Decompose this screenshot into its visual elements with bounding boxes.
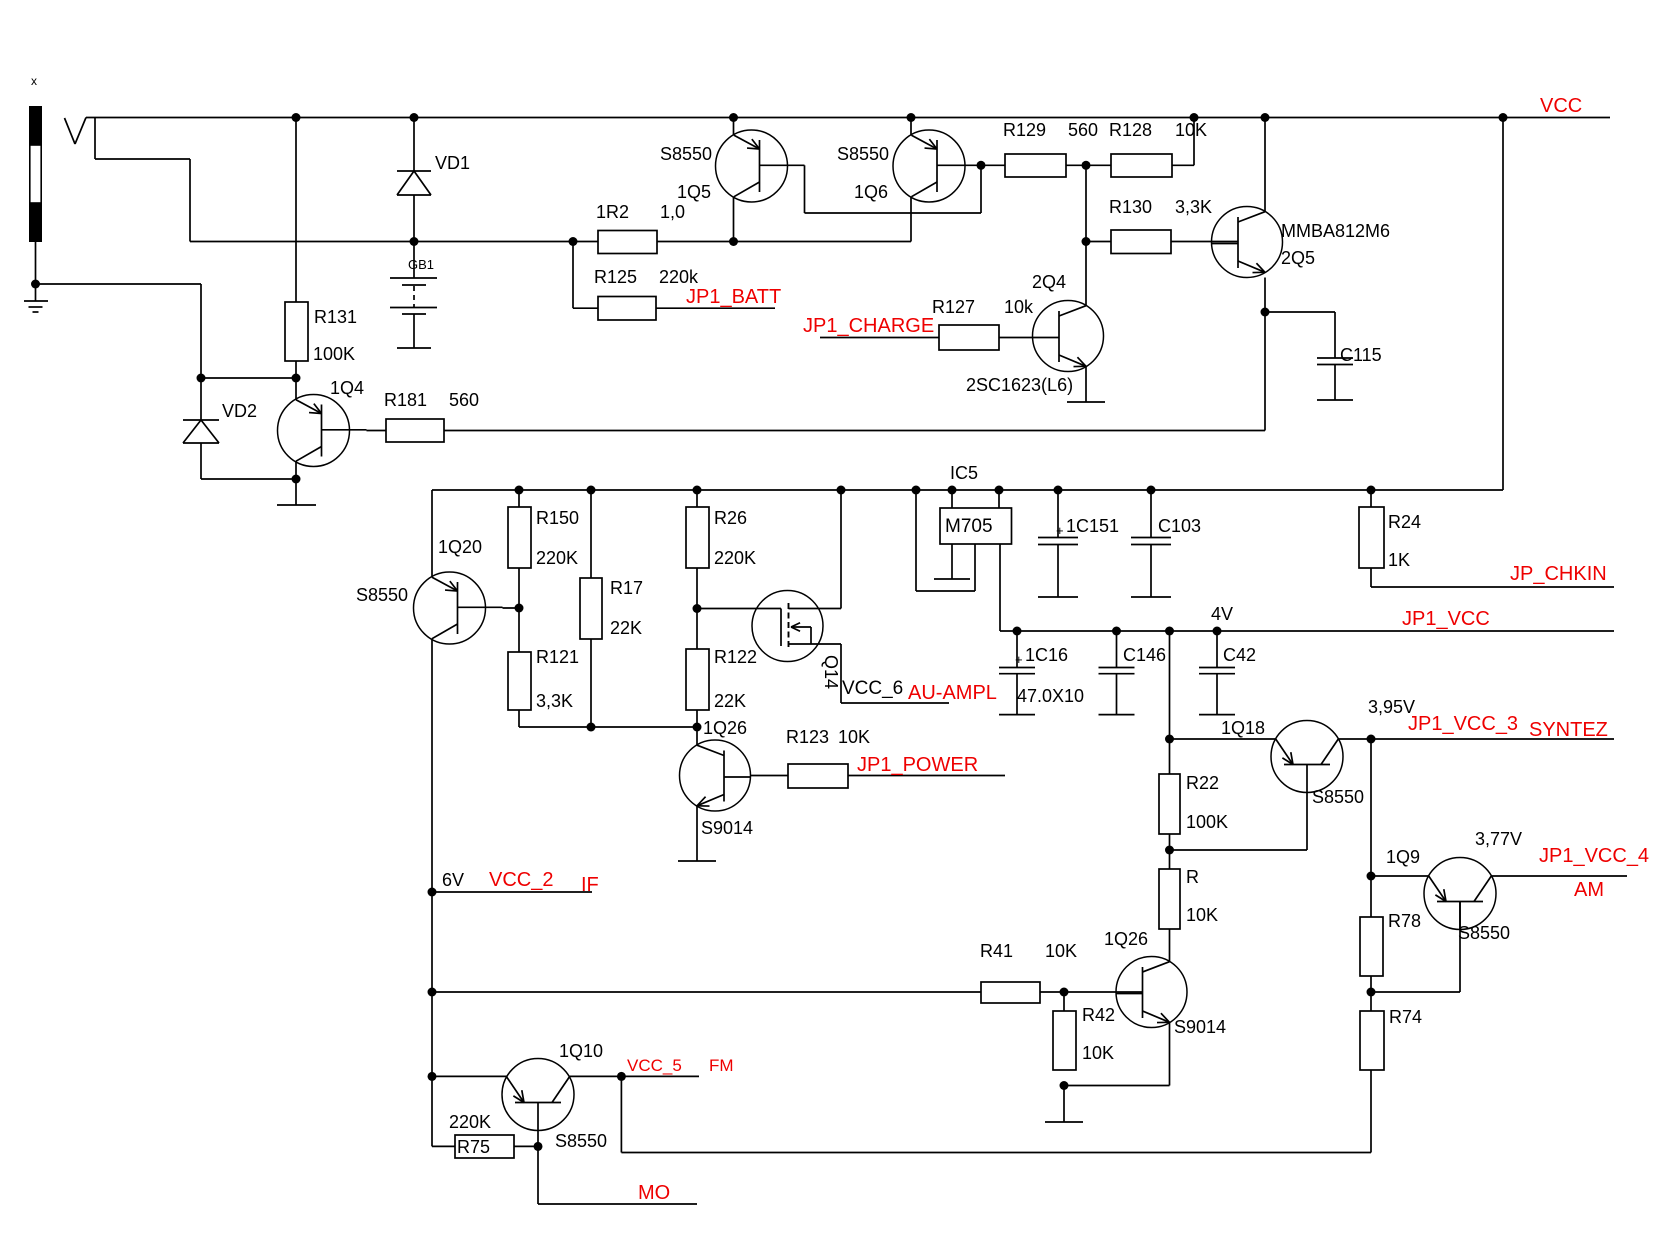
svg-text:R129: R129 [1003, 120, 1046, 140]
svg-text:S8550: S8550 [1458, 923, 1510, 943]
svg-text:1Q18: 1Q18 [1221, 718, 1265, 738]
svg-text:S8550: S8550 [356, 585, 408, 605]
svg-text:+: + [1015, 652, 1023, 667]
svg-text:1Q9: 1Q9 [1386, 847, 1420, 867]
svg-text:S8550: S8550 [1312, 787, 1364, 807]
svg-text:R125: R125 [594, 267, 637, 287]
svg-text:R75: R75 [457, 1137, 490, 1157]
svg-text:R: R [1186, 867, 1199, 887]
svg-text:R121: R121 [536, 647, 579, 667]
svg-text:100K: 100K [313, 344, 355, 364]
svg-text:10K: 10K [1045, 941, 1077, 961]
svg-text:FM: FM [709, 1056, 734, 1075]
svg-text:R17: R17 [610, 578, 643, 598]
svg-text:IC5: IC5 [950, 463, 978, 483]
svg-text:10k: 10k [1004, 297, 1034, 317]
svg-text:22K: 22K [610, 618, 642, 638]
svg-text:VCC_2: VCC_2 [489, 869, 553, 891]
svg-text:GB1: GB1 [408, 257, 434, 272]
svg-text:R22: R22 [1186, 773, 1219, 793]
svg-text:S9014: S9014 [701, 818, 753, 838]
svg-text:1Q10: 1Q10 [559, 1041, 603, 1061]
svg-text:1Q26: 1Q26 [703, 718, 747, 738]
svg-text:220K: 220K [536, 548, 578, 568]
svg-text:2Q4: 2Q4 [1032, 272, 1066, 292]
svg-text:47.0X10: 47.0X10 [1017, 686, 1084, 706]
svg-text:560: 560 [1068, 120, 1098, 140]
svg-text:10K: 10K [838, 727, 870, 747]
svg-text:3,3K: 3,3K [536, 691, 573, 711]
svg-text:1Q5: 1Q5 [677, 182, 711, 202]
svg-text:R130: R130 [1109, 197, 1152, 217]
svg-text:10K: 10K [1082, 1043, 1114, 1063]
svg-text:10K: 10K [1186, 905, 1218, 925]
svg-text:S9014: S9014 [1174, 1017, 1226, 1037]
svg-text:R181: R181 [384, 390, 427, 410]
svg-text:S8550: S8550 [555, 1131, 607, 1151]
svg-text:R128: R128 [1109, 120, 1152, 140]
svg-text:VCC_5: VCC_5 [627, 1056, 682, 1075]
svg-text:2Q5: 2Q5 [1281, 248, 1315, 268]
svg-text:R41: R41 [980, 941, 1013, 961]
svg-text:JP1_VCC_4: JP1_VCC_4 [1539, 845, 1649, 867]
svg-text:22K: 22K [714, 691, 746, 711]
svg-text:VD2: VD2 [222, 401, 257, 421]
svg-text:S8550: S8550 [660, 144, 712, 164]
svg-text:2SC1623(L6): 2SC1623(L6) [966, 375, 1073, 395]
svg-text:VCC: VCC [1540, 95, 1582, 117]
svg-text:R131: R131 [314, 307, 357, 327]
svg-text:IF: IF [581, 874, 599, 896]
svg-text:C115: C115 [1340, 345, 1382, 365]
svg-text:220K: 220K [449, 1112, 491, 1132]
svg-text:VCC_6: VCC_6 [842, 678, 903, 699]
svg-text:1K: 1K [1388, 550, 1410, 570]
svg-text:1Q26: 1Q26 [1104, 929, 1148, 949]
svg-text:R78: R78 [1388, 911, 1421, 931]
svg-text:Q14: Q14 [821, 655, 841, 689]
svg-text:1Q6: 1Q6 [854, 182, 888, 202]
svg-text:JP1_BATT: JP1_BATT [686, 286, 781, 308]
svg-text:100K: 100K [1186, 812, 1228, 832]
svg-text:R74: R74 [1389, 1007, 1422, 1027]
svg-text:JP_CHKIN: JP_CHKIN [1510, 563, 1607, 585]
svg-text:AM: AM [1574, 879, 1604, 901]
svg-text:1Q4: 1Q4 [330, 378, 364, 398]
svg-text:10K: 10K [1175, 120, 1207, 140]
svg-text:SYNTEZ: SYNTEZ [1529, 719, 1608, 741]
svg-text:1C151: 1C151 [1066, 516, 1119, 536]
svg-text:VD1: VD1 [435, 153, 470, 173]
svg-text:3,3K: 3,3K [1175, 197, 1212, 217]
svg-text:+: + [1056, 523, 1064, 538]
svg-text:220k: 220k [659, 267, 699, 287]
svg-text:1Q20: 1Q20 [438, 537, 482, 557]
svg-text:R24: R24 [1388, 512, 1421, 532]
svg-text:R150: R150 [536, 508, 579, 528]
svg-text:3,77V: 3,77V [1475, 829, 1522, 849]
svg-text:M705: M705 [945, 516, 993, 537]
svg-text:JP1_POWER: JP1_POWER [857, 754, 978, 776]
svg-text:1,0: 1,0 [660, 202, 685, 222]
svg-text:C103: C103 [1158, 516, 1201, 536]
svg-text:1R2: 1R2 [596, 202, 629, 222]
svg-text:JP1_CHARGE: JP1_CHARGE [803, 315, 934, 337]
svg-text:MO: MO [638, 1182, 670, 1204]
svg-text:R26: R26 [714, 508, 747, 528]
svg-text:AU-AMPL: AU-AMPL [908, 682, 997, 704]
svg-text:560: 560 [449, 390, 479, 410]
svg-text:C146: C146 [1123, 645, 1166, 665]
svg-text:R122: R122 [714, 647, 757, 667]
svg-text:6V: 6V [442, 870, 464, 890]
svg-text:JP1_VCC_3: JP1_VCC_3 [1408, 713, 1518, 735]
svg-text:S8550: S8550 [837, 144, 889, 164]
svg-text:JP1_VCC: JP1_VCC [1402, 608, 1490, 630]
svg-text:R123: R123 [786, 727, 829, 747]
svg-text:x: x [31, 74, 37, 88]
svg-text:R127: R127 [932, 297, 975, 317]
svg-text:220K: 220K [714, 548, 756, 568]
svg-text:C42: C42 [1223, 645, 1256, 665]
svg-text:MMBA812M6: MMBA812M6 [1281, 221, 1390, 241]
svg-text:4V: 4V [1211, 604, 1233, 624]
svg-text:R42: R42 [1082, 1005, 1115, 1025]
svg-text:1C16: 1C16 [1025, 645, 1068, 665]
